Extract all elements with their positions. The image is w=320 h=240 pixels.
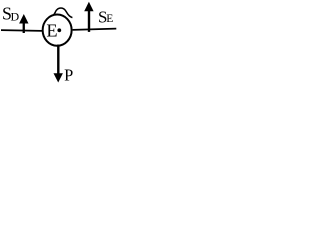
svg-text:P: P [64, 66, 73, 85]
svg-text:E: E [106, 13, 113, 25]
svg-text:E: E [46, 21, 57, 41]
svg-text:D: D [11, 10, 20, 24]
